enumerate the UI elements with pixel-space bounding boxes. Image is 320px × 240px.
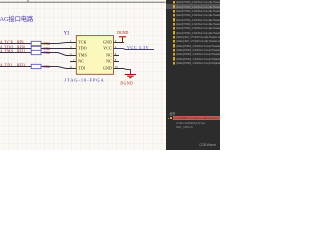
- svg-text:GA TDI: GA TDI: [0, 63, 13, 67]
- svg-text:JTAG-10-FPGA: JTAG-10-FPGA: [64, 77, 104, 82]
- svg-text:10: 10: [115, 65, 119, 69]
- svg-text:VCC 3.3V: VCC 3.3V: [127, 45, 149, 50]
- svg-text:GA TMS: GA TMS: [0, 49, 13, 53]
- svg-text:VCC: VCC: [103, 47, 112, 51]
- svg-text:RF9: RF9: [17, 40, 23, 44]
- svg-text:GA TCK: GA TCK: [0, 40, 13, 44]
- svg-text:NC: NC: [106, 54, 112, 58]
- svg-text:RF13: RF13: [17, 63, 25, 67]
- svg-text:GND: GND: [103, 67, 112, 71]
- svg-text:TDI: TDI: [78, 67, 86, 71]
- svg-text:TCK: TCK: [78, 41, 86, 45]
- svg-text:RF11: RF11: [17, 49, 25, 53]
- svg-text:33Ω: 33Ω: [43, 51, 50, 55]
- svg-text:NC: NC: [78, 60, 84, 64]
- svg-text:TMS: TMS: [78, 54, 87, 58]
- svg-text:AG接口电路: AG接口电路: [0, 14, 34, 23]
- svg-text:33Ω: 33Ω: [43, 42, 50, 46]
- svg-text:NC: NC: [106, 60, 112, 64]
- svg-text:33Ω: 33Ω: [43, 65, 50, 69]
- svg-text:TDO: TDO: [78, 47, 87, 51]
- svg-text:DGND: DGND: [117, 31, 128, 35]
- svg-text:DGND: DGND: [120, 81, 133, 85]
- svg-text:Y3: Y3: [64, 31, 70, 36]
- svg-text:GND: GND: [103, 41, 112, 45]
